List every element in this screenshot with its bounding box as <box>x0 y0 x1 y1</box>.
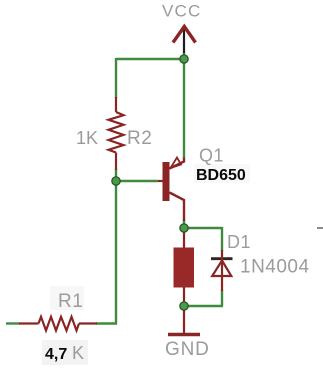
svg-text:GND: GND <box>165 339 210 360</box>
wire: diode top vertical <box>221 227 223 251</box>
svg-text:R2: R2 <box>127 128 152 149</box>
svg-text:R1: R1 <box>58 291 83 312</box>
wire: left branch vertical above R2 <box>115 58 117 98</box>
faint box behind R1 label <box>50 286 84 310</box>
relay coil body <box>174 248 195 288</box>
svg-text:K: K <box>72 343 84 363</box>
wire: left branch vertical below R2 to base node <box>115 169 117 182</box>
transistor Q1 collector <box>170 193 185 222</box>
svg-text:4,7: 4,7 <box>45 346 67 363</box>
ground <box>168 333 200 337</box>
transistor Q1 emitter arrow (PNP) <box>171 158 182 169</box>
transistor Q1 emitter <box>170 158 185 169</box>
wire: base node to transistor base <box>116 180 158 182</box>
node A: VCC junction <box>180 55 188 63</box>
node D: gnd junction <box>180 302 188 310</box>
wire: R1 left segment to edge <box>6 322 20 324</box>
gnd pin <box>183 310 185 334</box>
node B: base junction <box>112 177 120 185</box>
faint box behind BD650 label <box>194 164 250 183</box>
node C: collector/relay junction <box>180 224 188 232</box>
stray mark right edge <box>317 227 323 229</box>
VCC arrow symbol <box>173 27 196 43</box>
wire: diode bottom to gnd node <box>184 305 223 307</box>
wire: relay node right to diode top <box>184 227 222 229</box>
resistor R1 <box>19 317 97 331</box>
diode D1 lead through <box>221 250 223 291</box>
svg-text:BD650: BD650 <box>196 167 246 184</box>
relay coil pin bottom <box>183 287 185 306</box>
wire: VCC horizontal to left branch <box>116 58 184 60</box>
transistor Q1 base pin <box>158 180 163 182</box>
VCC pin (black) <box>183 29 185 54</box>
relay coil pin top <box>183 228 185 248</box>
faint box behind 4,7 K label <box>42 340 88 365</box>
wire: left branch vertical from base node down to R1 <box>115 181 117 324</box>
svg-text:VCC: VCC <box>162 2 202 21</box>
diode D1 cathode bar <box>211 257 233 260</box>
svg-text:1N4004: 1N4004 <box>240 257 310 278</box>
wire: emitter vertical from VCC node <box>183 59 185 158</box>
transistor Q1 base bar <box>163 162 170 201</box>
resistor R2 <box>109 97 124 170</box>
wire: R1 right segment to left branch <box>96 322 117 324</box>
svg-text:1K: 1K <box>76 128 98 148</box>
wire: VCC pin to node (green tip) <box>183 53 185 59</box>
diode D1 triangle <box>212 261 231 277</box>
svg-text:Q1: Q1 <box>199 146 224 166</box>
wire: diode bottom vertical <box>221 290 223 306</box>
wire: collector to relay node <box>183 220 185 228</box>
svg-text:D1: D1 <box>227 232 251 252</box>
